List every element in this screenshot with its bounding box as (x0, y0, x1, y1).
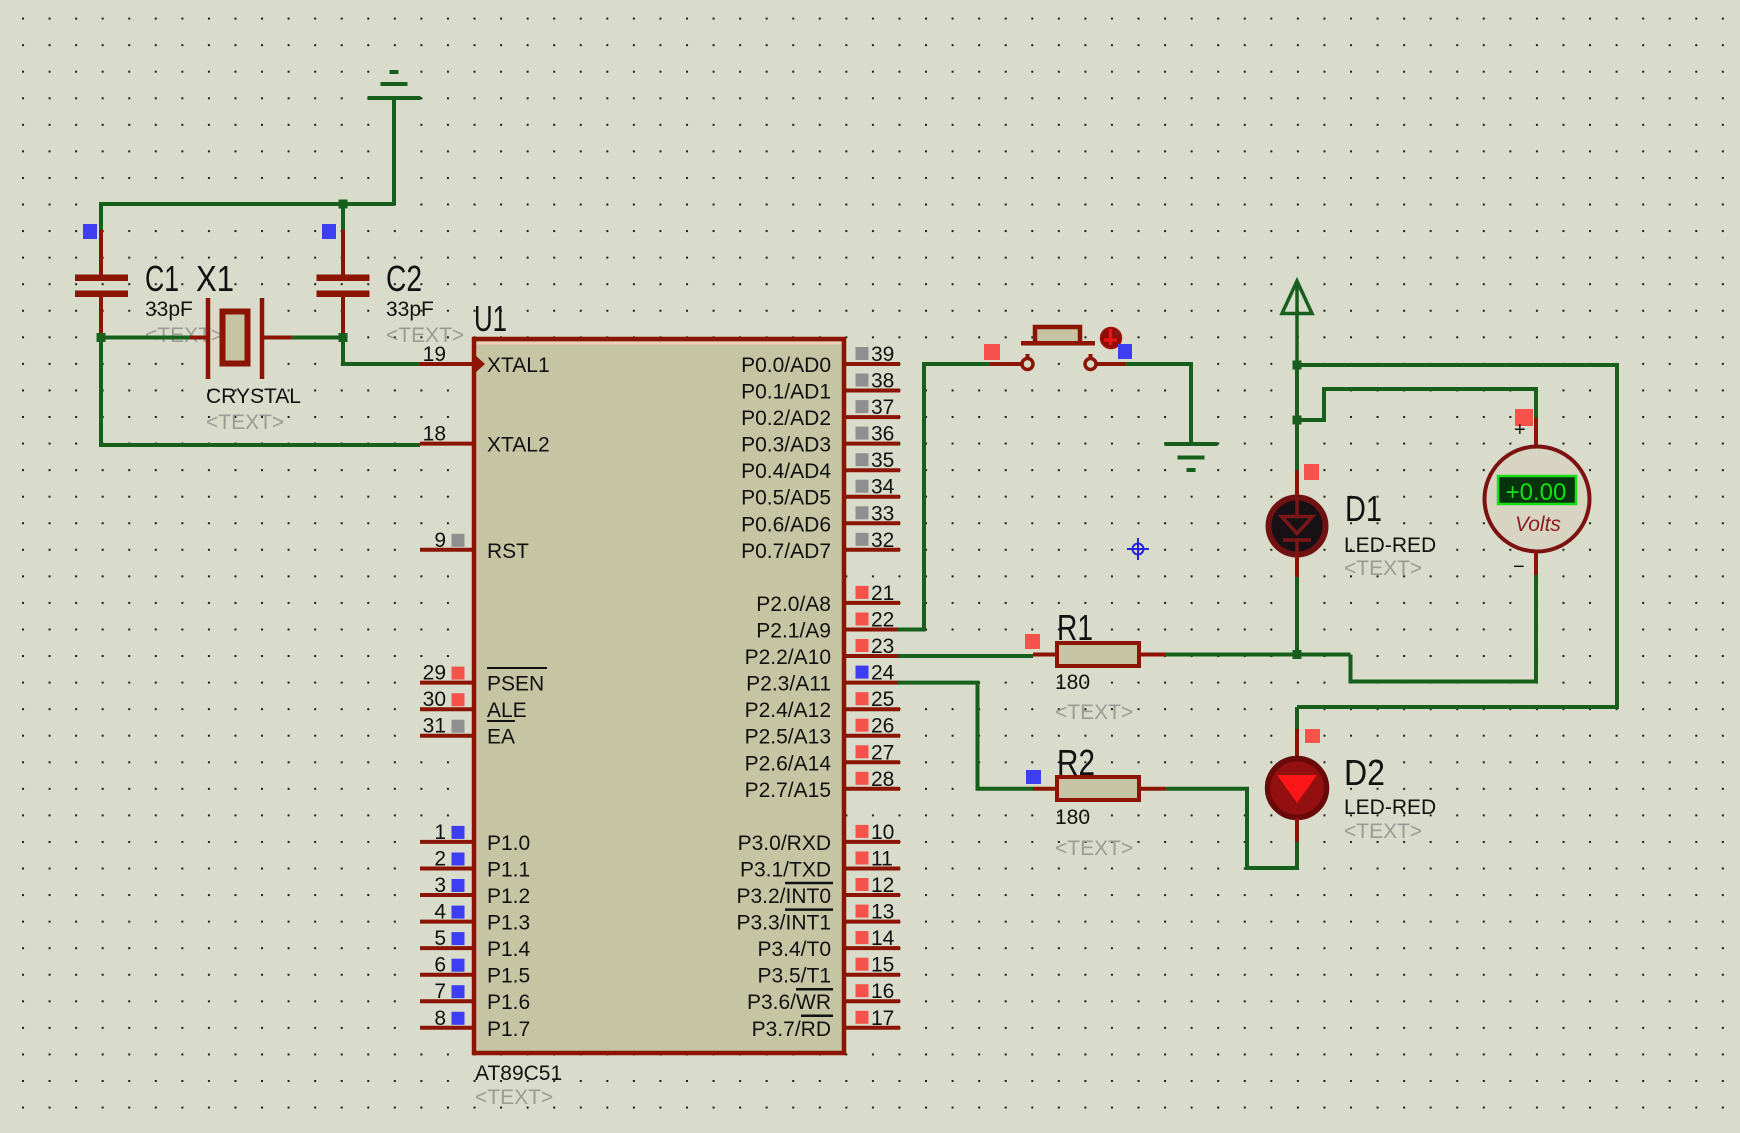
svg-text:8: 8 (434, 1007, 446, 1030)
svg-text:15: 15 (871, 954, 894, 977)
origin marker (blue crosshair) (1127, 538, 1149, 560)
svg-text:P3.3/INT1: P3.3/INT1 (736, 912, 831, 935)
svg-text:P1.6: P1.6 (487, 991, 530, 1014)
svg-text:38: 38 (871, 370, 894, 393)
pin-state square (blue) R2 left (1026, 770, 1041, 784)
svg-text:1: 1 (434, 821, 446, 844)
svg-text:+: + (1514, 419, 1526, 441)
svg-text:<TEXT>: <TEXT> (1344, 820, 1422, 843)
wire voltmeter + branch (1297, 389, 1536, 420)
wire to C2 top (341, 204, 345, 232)
svg-text:AT89C51: AT89C51 (475, 1062, 562, 1085)
ground (button) (1165, 444, 1218, 470)
svg-text:P3.6/WR: P3.6/WR (747, 991, 831, 1014)
pin 16 P3.6/WR (right) (846, 999, 900, 1003)
overline EA (487, 720, 515, 722)
svg-text:P2.0/A8: P2.0/A8 (756, 593, 831, 616)
node junction right oscillator (339, 333, 348, 342)
pin 13 P3.3/INT1 (right) (846, 920, 900, 924)
svg-text:27: 27 (871, 741, 894, 764)
svg-text:P2.3/A11: P2.3/A11 (746, 673, 831, 696)
svg-text:U1: U1 (474, 298, 507, 339)
pin 18 XTAL2 (left) (420, 442, 472, 446)
svg-text:R2: R2 (1057, 742, 1095, 783)
pin 5 P1.4 (left) (420, 946, 472, 950)
node junction D1/R1 (1293, 650, 1302, 659)
capacitor C1 (75, 230, 128, 333)
pin 28 P2.7/A15 (right) (846, 787, 900, 791)
wire pin24 to R2 (898, 683, 1033, 789)
svg-text:30: 30 (423, 688, 446, 711)
svg-text:P1.1: P1.1 (487, 859, 530, 882)
svg-text:22: 22 (871, 609, 894, 632)
svg-text:16: 16 (871, 980, 894, 1003)
svg-text:R1: R1 (1057, 607, 1093, 648)
svg-text:37: 37 (871, 396, 894, 419)
svg-text:35: 35 (871, 449, 894, 472)
button actuator symbol (1101, 328, 1122, 349)
pin 15 P3.5/T1 (right) (846, 973, 900, 977)
pin 8 P1.7 (left) (420, 1026, 472, 1030)
svg-text:LED-RED: LED-RED (1344, 796, 1436, 819)
svg-text:EA: EA (487, 726, 515, 749)
pin 3 P1.2 (left) (420, 893, 472, 897)
svg-text:P0.3/AD3: P0.3/AD3 (741, 434, 831, 457)
crystal X1 (190, 336, 206, 340)
svg-text:P2.1/A9: P2.1/A9 (756, 620, 831, 643)
svg-text:P1.4: P1.4 (487, 938, 531, 961)
pin 10 P3.0/RXD (right) (846, 840, 900, 844)
wire to far right rail (1297, 365, 1617, 707)
svg-text:28: 28 (871, 768, 894, 791)
wire pin22 to button (898, 364, 990, 630)
wire R2 to D2 (1165, 789, 1297, 868)
svg-text:19: 19 (423, 343, 446, 366)
wire VCC-top horizontal (101, 204, 394, 206)
svg-text:7: 7 (434, 980, 446, 1003)
pin 25 P2.4/A12 (right) (846, 707, 900, 711)
svg-text:180: 180 (1055, 806, 1090, 829)
capacitor C2 (317, 230, 370, 333)
svg-text:P3.5/T1: P3.5/T1 (757, 965, 831, 988)
pin 27 P2.6/A14 (right) (846, 760, 900, 764)
pin-state square (red) D2 anode (1305, 729, 1320, 743)
wire to C1 top (99, 204, 103, 232)
svg-text:33: 33 (871, 502, 894, 525)
pin 17 P3.7/RD (right) (846, 1026, 900, 1030)
svg-text:P2.2/A10: P2.2/A10 (745, 646, 831, 669)
pin 2 P1.1 (left) (420, 867, 472, 871)
svg-text:ALE: ALE (487, 699, 527, 722)
svg-text:P3.1/TXD: P3.1/TXD (740, 859, 831, 882)
pin-state square (red) voltmeter + (1515, 409, 1533, 426)
svg-text:P1.0: P1.0 (487, 832, 530, 855)
svg-text:+0.00: +0.00 (1506, 479, 1567, 506)
XTAL1 clock input arrow (475, 355, 485, 373)
svg-text:33pF: 33pF (145, 298, 193, 321)
svg-text:9: 9 (434, 529, 446, 552)
pin 32 P0.7/AD7 (right) (846, 548, 900, 552)
svg-text:P0.1/AD1: P0.1/AD1 (741, 381, 831, 404)
pin-state square (red) D1 anode (1304, 464, 1319, 480)
svg-text:P3.4/T0: P3.4/T0 (757, 938, 831, 961)
pin 23 P2.2/A10 (right) (846, 654, 900, 658)
pin 30 ALE (left) (420, 707, 472, 711)
pin 22 P2.1/A9 (right) (846, 628, 900, 632)
svg-text:26: 26 (871, 715, 894, 738)
pin-state square (blue) C1 top (83, 224, 97, 239)
svg-text:−: − (1513, 556, 1525, 578)
pin 31 EA (left) (420, 734, 472, 738)
pin 26 P2.5/A13 (right) (846, 734, 900, 738)
svg-text:2: 2 (434, 848, 446, 871)
pin 34 P0.5/AD5 (right) (846, 495, 900, 499)
svg-text:C2: C2 (386, 258, 422, 299)
svg-text:X1: X1 (196, 258, 234, 299)
svg-text:<TEXT>: <TEXT> (1055, 701, 1133, 724)
pin 12 P3.2/INT0 (right) (846, 893, 900, 897)
svg-text:P3.7/RD: P3.7/RD (752, 1018, 831, 1041)
svg-text:P0.2/AD2: P0.2/AD2 (741, 407, 831, 430)
push button (990, 362, 1021, 366)
svg-text:P2.6/A14: P2.6/A14 (745, 752, 832, 775)
pin 24 P2.3/A11 (right) (846, 681, 900, 685)
pin-state square (red) button left (984, 344, 1000, 360)
pin 33 P0.6/AD6 (right) (846, 521, 900, 525)
power terminal (arrow up) (1282, 281, 1312, 365)
pin 19 XTAL1 (left) (420, 362, 472, 366)
pin 35 P0.4/AD4 (right) (846, 468, 900, 472)
svg-text:P3.0/RXD: P3.0/RXD (738, 832, 831, 855)
pin 4 P1.3 (left) (420, 920, 472, 924)
LED D1 (1295, 470, 1299, 497)
wire D1 cathode down (1295, 577, 1299, 654)
svg-text:P1.7: P1.7 (487, 1018, 530, 1041)
svg-text:<TEXT>: <TEXT> (1055, 837, 1133, 860)
pin 36 P0.3/AD3 (right) (846, 442, 900, 446)
svg-text:XTAL2: XTAL2 (487, 434, 550, 457)
node junction power/right rail (1293, 361, 1302, 370)
pin 39 P0.0/AD0 (right) (846, 362, 900, 366)
svg-text:29: 29 (423, 662, 446, 685)
svg-text:17: 17 (871, 1007, 894, 1030)
svg-text:XTAL1: XTAL1 (487, 354, 550, 377)
wire D2 anode from right rail (1295, 707, 1299, 731)
pin 37 P0.2/AD2 (right) (846, 415, 900, 419)
svg-text:D2: D2 (1344, 752, 1385, 793)
pin 38 P0.1/AD1 (right) (846, 389, 900, 393)
svg-text:32: 32 (871, 529, 894, 552)
svg-text:13: 13 (871, 901, 894, 924)
svg-text:P1.5: P1.5 (487, 965, 530, 988)
svg-text:12: 12 (871, 874, 894, 897)
wire button to ground (1125, 364, 1191, 442)
svg-text:C1: C1 (145, 258, 179, 299)
svg-text:P2.5/A13: P2.5/A13 (745, 726, 831, 749)
voltmeter (1534, 418, 1538, 448)
pin 14 P3.4/T0 (right) (846, 946, 900, 950)
svg-text:P2.4/A12: P2.4/A12 (745, 699, 831, 722)
wire R1 to junction and voltmeter - (1165, 653, 1351, 657)
svg-text:P0.4/AD4: P0.4/AD4 (741, 460, 831, 483)
pin 29 PSEN (left) (420, 681, 472, 685)
svg-text:14: 14 (871, 927, 895, 950)
svg-text:<TEXT>: <TEXT> (206, 411, 284, 434)
op-chip U1 AT89C51 body (474, 339, 844, 1053)
pin 21 P2.0/A8 (right) (846, 601, 900, 605)
svg-text:P1.2: P1.2 (487, 885, 530, 908)
wire C1 bottom to crystal (101, 333, 190, 338)
svg-text:5: 5 (434, 927, 446, 950)
svg-text:11: 11 (871, 848, 893, 871)
svg-text:4: 4 (434, 901, 446, 924)
pin 6 P1.5 (left) (420, 973, 472, 977)
svg-text:CRYSTAL: CRYSTAL (206, 385, 301, 408)
node junction C1/C2 top rail (339, 200, 348, 209)
svg-text:18: 18 (423, 423, 446, 446)
pin-state square (blue) button right (1118, 344, 1132, 359)
svg-text:10: 10 (871, 821, 894, 844)
wire crystal to XTAL1 (pin 19) (291, 338, 420, 365)
resistor R2 (1033, 787, 1057, 791)
pin-state square (blue) C2 top (322, 224, 336, 239)
svg-text:34: 34 (871, 476, 895, 499)
pin 7 P1.6 (left) (420, 999, 472, 1003)
resistor R1 (1033, 653, 1057, 657)
wire power rail down to D1 (1295, 365, 1299, 470)
svg-text:P3.2/INT0: P3.2/INT0 (736, 885, 831, 908)
svg-text:P2.7/A15: P2.7/A15 (745, 779, 831, 802)
svg-text:31: 31 (423, 715, 446, 738)
svg-text:21: 21 (871, 582, 894, 605)
svg-text:RST: RST (487, 540, 529, 563)
svg-text:P0.7/AD7: P0.7/AD7 (741, 540, 831, 563)
svg-text:P0.5/AD5: P0.5/AD5 (741, 487, 831, 510)
svg-text:3: 3 (434, 874, 446, 897)
svg-text:24: 24 (871, 662, 895, 685)
svg-text:36: 36 (871, 423, 894, 446)
svg-text:P1.3: P1.3 (487, 912, 530, 935)
svg-text:Volts: Volts (1515, 513, 1561, 536)
pin-state square (red) R1 left (1025, 634, 1040, 649)
overline PSEN (487, 667, 547, 669)
svg-text:39: 39 (871, 343, 894, 366)
svg-text:<TEXT>: <TEXT> (475, 1086, 553, 1109)
svg-text:LED-RED: LED-RED (1344, 534, 1436, 557)
svg-text:33pF: 33pF (386, 298, 434, 321)
wire C1 node to XTAL2 (pin 18) (101, 338, 420, 446)
wire pin23 to R1 (898, 654, 1033, 658)
pin 1 P1.0 (left) (420, 840, 472, 844)
svg-text:25: 25 (871, 688, 894, 711)
ground (inverted, top of oscillator) (368, 72, 421, 204)
svg-text:D1: D1 (1345, 488, 1382, 529)
svg-text:P0.0/AD0: P0.0/AD0 (741, 354, 831, 377)
svg-text:PSEN: PSEN (487, 673, 544, 696)
svg-text:180: 180 (1055, 671, 1090, 694)
svg-text:6: 6 (434, 954, 446, 977)
pin 9 RST (left) (420, 548, 472, 552)
node junction left oscillator (97, 333, 106, 342)
svg-text:P0.6/AD6: P0.6/AD6 (741, 513, 831, 536)
pin 11 P3.1/TXD (right) (846, 867, 900, 871)
node junction voltmeter+ tap (1293, 416, 1302, 425)
svg-text:<TEXT>: <TEXT> (1344, 557, 1422, 580)
svg-text:23: 23 (871, 635, 894, 658)
